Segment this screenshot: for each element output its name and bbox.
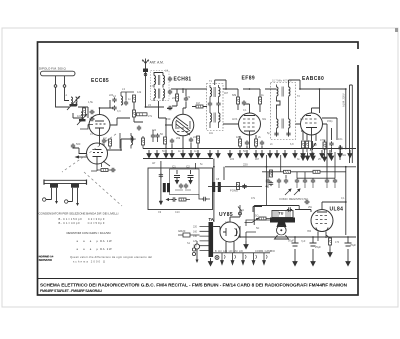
svg-text:220: 220	[193, 135, 198, 139]
UY85 anode feed	[213, 209, 240, 232]
EF89 cathode parts	[239, 139, 265, 146]
cap in TU feed	[287, 207, 292, 211]
svg-text:5Ω: 5Ω	[255, 214, 258, 218]
grid caps left of ECH81	[151, 130, 160, 142]
switch arrow right of UY85	[245, 218, 259, 223]
dial lamp	[215, 256, 219, 260]
electrolytic C50c	[345, 237, 357, 258]
coupling cap right	[329, 141, 333, 146]
L4 coil vertical	[131, 133, 136, 149]
svg-text:AP: AP	[152, 162, 156, 165]
tone network resistor RA	[284, 170, 291, 173]
svg-text:6,8: 6,8	[290, 143, 294, 146]
rectifier tube UY85	[220, 222, 240, 242]
svg-text:0,5M: 0,5M	[302, 198, 308, 201]
svg-text:C10: C10	[175, 211, 180, 214]
output pentode UL84	[311, 210, 333, 236]
svg-text:FM/64RF STARLET - FM/64RF SANG: FM/64RF STARLET - FM/64RF SANGRAU	[40, 289, 102, 293]
wires T1 to EF89	[215, 80, 238, 124]
bypass caps under ECH81	[189, 136, 200, 143]
tone caps to gnd stubs	[268, 184, 335, 188]
screen resistor R5	[176, 94, 179, 101]
svg-text:1M: 1M	[300, 118, 303, 121]
svg-text:CONDENSATORI PER SELEZIONE BAN: CONDENSATORI PER SELEZIONE BANDA DIF. DE…	[39, 212, 119, 216]
svg-text:25n: 25n	[308, 206, 313, 209]
svg-text:B-C1=150pF C2=30pF: B-C1=150pF C2=30pF	[59, 217, 105, 221]
svg-text:220: 220	[243, 163, 248, 167]
svg-text:a a a µ DA 1W: a a a µ DA 1W	[77, 239, 112, 243]
horizontal bus AVC line	[143, 148, 356, 150]
vertical feed wire x120	[110, 133, 120, 150]
svg-text:EF89: EF89	[242, 76, 256, 82]
phono switch box corner	[253, 207, 262, 213]
svg-text:UL84: UL84	[330, 207, 344, 213]
svg-text:B 110 125 140 160 220: B 110 125 140 160 220	[215, 250, 244, 253]
ferrite rod antenna	[44, 180, 87, 185]
tuning gang box	[148, 168, 213, 210]
IF transformer T2 dashed box	[271, 83, 296, 140]
volume pot vertical	[267, 155, 281, 205]
TA primary taps	[200, 227, 209, 251]
svg-text:220: 220	[109, 94, 114, 97]
value smudges front-end	[64, 87, 142, 146]
coupling caps C4 C5	[112, 97, 116, 102]
rotor bar C	[212, 182, 215, 192]
rectifier GR20	[178, 229, 200, 237]
svg-text:220: 220	[193, 226, 198, 229]
inner box caps	[175, 183, 191, 190]
neutralizing cluster under ECC85a	[102, 138, 112, 149]
EF89 screen components	[237, 97, 262, 106]
tone network resistor RB	[313, 170, 320, 173]
svg-text:ECH81: ECH81	[174, 77, 192, 83]
svg-text:25μF: 25μF	[350, 243, 356, 247]
svg-text:220: 220	[230, 158, 235, 161]
svg-text:47k: 47k	[186, 95, 191, 99]
ferrite coil A	[43, 184, 59, 205]
svg-text:SCHEMA ELETTRICO DEI RADIORICE: SCHEMA ELETTRICO DEI RADIORICEVITORI G.B…	[40, 283, 348, 288]
svg-text:3,3: 3,3	[117, 110, 121, 113]
svg-text:TU: TU	[279, 212, 284, 216]
svg-text:SERVIZIO: SERVIZIO	[39, 258, 53, 262]
electrolytic C50b	[310, 237, 322, 258]
variable cap C2	[186, 165, 194, 184]
tone caps row	[266, 178, 337, 183]
gang left feed column	[159, 161, 163, 205]
pentagrid ECH81	[172, 114, 194, 136]
fuse terminal above UY85	[238, 205, 242, 215]
ground arrows row under IF strip	[147, 150, 352, 158]
triode ECC85b	[87, 143, 108, 164]
svg-text:AOS: AOS	[232, 118, 238, 121]
input tuning coil L1 with trimmer arrow	[67, 96, 80, 110]
T1 tuning caps	[208, 97, 221, 107]
svg-text:220k: 220k	[306, 140, 312, 143]
svg-text:50μF: 50μF	[288, 239, 294, 243]
svg-text:68k: 68k	[232, 93, 237, 97]
osc grid resistor R7	[164, 137, 175, 144]
impedance tap resistor	[255, 214, 270, 221]
interstage coil L3	[121, 92, 134, 106]
horizontal bus heater line	[143, 158, 213, 160]
grid resistor UL84	[323, 142, 326, 149]
plate load resistor R4	[137, 113, 148, 116]
AM antenna symbol	[142, 59, 149, 100]
svg-text:10n: 10n	[209, 132, 214, 135]
svg-text:ECC85: ECC85	[91, 78, 109, 84]
electrolytic C50a	[288, 237, 299, 258]
pickup PU circle	[194, 241, 199, 263]
value smudges ECH81	[148, 69, 200, 141]
svg-text:ANT. A.M.: ANT. A.M.	[150, 61, 164, 65]
UL84 cathode resistor	[318, 235, 332, 249]
rotor bar D	[218, 182, 221, 192]
small value labels right	[313, 137, 343, 147]
gang bottom parts	[166, 197, 191, 201]
fono series cap	[217, 184, 222, 188]
svg-text:467: 467	[255, 158, 260, 161]
tone wires	[262, 172, 346, 178]
rotor bar A	[163, 183, 166, 192]
fono coupling line	[208, 185, 262, 187]
vertical feeder left of gang	[214, 159, 224, 223]
title separator line	[38, 278, 359, 280]
svg-text:100: 100	[152, 129, 157, 132]
svg-text:1M: 1M	[313, 143, 317, 147]
svg-text:180: 180	[236, 135, 241, 139]
volume pot 500k	[269, 170, 274, 186]
svg-text:0,1: 0,1	[341, 197, 345, 200]
resistor R3	[133, 110, 136, 117]
inner detector box	[170, 169, 200, 195]
resistor R2	[133, 95, 136, 102]
EABC80 lower wiring	[301, 118, 337, 172]
switch arrows tone	[285, 189, 300, 195]
resistor column right of ECC85	[142, 136, 145, 149]
schematic border frame	[38, 42, 361, 295]
rotor bar B	[167, 183, 170, 192]
UY85 pins down	[226, 241, 234, 253]
svg-text:170: 170	[335, 241, 340, 244]
svg-text:12k: 12k	[137, 90, 142, 94]
wire lower triode left	[73, 148, 87, 154]
T2 primary coil pair	[277, 85, 291, 97]
UL84 grid feed	[322, 145, 346, 235]
small caps C2 C3 at grid	[89, 110, 94, 114]
speaker return wire	[246, 220, 270, 241]
svg-text:C1: C1	[172, 165, 176, 169]
svg-text:100: 100	[77, 114, 82, 118]
B+ rail bottom	[240, 226, 356, 237]
triode-triple-diode EABC80	[301, 113, 323, 135]
tap terminal arrows	[221, 253, 268, 265]
svg-text:20k: 20k	[176, 136, 181, 140]
coupling cap to UL84	[304, 200, 309, 204]
svg-text:2A: 2A	[241, 209, 244, 212]
svg-text:160: 160	[193, 230, 198, 233]
svg-text:GZ: GZ	[225, 221, 229, 224]
svg-text:a a a µ DA 2W: a a a µ DA 2W	[77, 247, 112, 251]
svg-text:150p: 150p	[327, 120, 333, 123]
output transformer TU windings	[272, 211, 293, 218]
svg-text:COMM. CAMBIO: COMM. CAMBIO	[255, 249, 275, 253]
variable cap C1	[172, 165, 180, 184]
cathode choke cluster	[77, 112, 87, 125]
svg-text:TA: TA	[209, 217, 214, 222]
svg-text:0,1: 0,1	[243, 109, 247, 112]
tone second rail	[297, 177, 335, 179]
svg-text:FONO: FONO	[230, 189, 239, 193]
value smudges EF89	[232, 93, 264, 153]
fono resistor	[237, 183, 247, 190]
wires below lower triode	[91, 161, 110, 171]
FM dipole antenna	[41, 71, 76, 87]
svg-text:GR20: GR20	[178, 229, 186, 233]
svg-text:350: 350	[307, 230, 312, 233]
TA tap labels	[193, 226, 198, 253]
oscillator transformer L7/L8	[154, 89, 165, 102]
cap far right	[338, 145, 342, 150]
svg-text:500k: 500k	[270, 170, 274, 176]
svg-text:EABC80: EABC80	[302, 76, 324, 82]
padder caps beside osc coils	[168, 76, 172, 81]
svg-text:467: 467	[224, 92, 229, 95]
wire dipole to input coil	[56, 87, 70, 107]
wire coil to grid cluster	[73, 107, 88, 118]
speaker magnet	[277, 223, 287, 228]
IF transformer T1 dashed box	[207, 84, 224, 131]
extra grounds under EABC80	[301, 153, 334, 162]
cathode arrow left ECC85	[75, 155, 88, 158]
T1 primary coil	[210, 85, 220, 97]
detector parts right	[196, 163, 211, 201]
AVC resistor	[306, 141, 309, 148]
detector load resistor	[302, 141, 305, 148]
svg-text:5Ω: 5Ω	[256, 227, 259, 230]
title text	[40, 283, 348, 294]
scattered value smudges	[109, 80, 347, 245]
svg-text:1,5k: 1,5k	[88, 100, 94, 104]
wire plate ECC85a to coupling	[100, 100, 114, 146]
power transformer TA core	[209, 222, 214, 257]
svg-text:schema 2000 Ω: schema 2000 Ω	[73, 260, 105, 264]
T2 coupling link	[277, 97, 281, 110]
svg-text:10n: 10n	[338, 137, 343, 141]
T1 secondary coil	[210, 107, 220, 129]
svg-text:25μF: 25μF	[315, 245, 321, 249]
ferrite coil B	[65, 184, 80, 207]
triode ECC85a	[89, 115, 110, 136]
pentode EF89	[239, 113, 261, 135]
svg-text:470k: 470k	[320, 138, 326, 142]
svg-text:560: 560	[76, 142, 81, 146]
AM input coil block	[143, 69, 148, 76]
oscillator transformer L5/L6	[154, 73, 165, 88]
cap C6	[129, 137, 134, 141]
svg-text:22k: 22k	[172, 96, 177, 100]
diagonal dashed gang line right	[84, 172, 122, 206]
arrow into tube grid	[80, 125, 93, 130]
TA secondary bottom line	[213, 252, 270, 254]
wire top bus to EABC80 and right column	[300, 89, 346, 149]
svg-text:1M: 1M	[196, 101, 200, 105]
grid cap C12	[167, 106, 172, 110]
svg-text:50n: 50n	[342, 154, 347, 157]
svg-text:7μF: 7μF	[301, 240, 306, 243]
AGC resistor R6	[196, 105, 203, 108]
ground under TA	[208, 258, 212, 266]
svg-text:C2: C2	[186, 165, 190, 169]
svg-text:FONO REGISTR.: FONO REGISTR.	[280, 197, 303, 201]
speaker horn	[275, 235, 289, 239]
svg-text:140: 140	[193, 235, 198, 238]
speaker basket circle	[277, 226, 287, 236]
cap C8	[71, 143, 75, 148]
svg-text:110: 110	[193, 245, 197, 248]
norme note	[39, 255, 153, 264]
right edge vertical pair	[350, 85, 353, 163]
plate decoupling cap	[184, 96, 188, 101]
grounds bottom right	[244, 241, 350, 266]
wires EF89	[238, 89, 262, 149]
grid resistor R1	[83, 108, 86, 115]
horizontal bus B+ line	[225, 166, 356, 168]
parts below ECC85b	[97, 163, 116, 172]
svg-text:150: 150	[166, 117, 171, 121]
svg-text:2,2: 2,2	[103, 136, 107, 140]
svg-text:ALIM. 220V: ALIM. 220V	[342, 93, 346, 107]
wire TU to UL84 plate	[254, 206, 311, 226]
TU core bar	[270, 218, 295, 223]
oscillator coils dashed enclosure	[151, 71, 170, 101]
wires resistors to gnd bus	[303, 140, 341, 172]
T2 bottom caps	[274, 131, 290, 136]
cap C7	[137, 125, 141, 130]
svg-text:125: 125	[193, 240, 198, 243]
svg-text:RESISTORI CON OHMS = DA 1/SM: RESISTORI CON OHMS = DA 1/SM	[67, 231, 112, 235]
T2 secondary coil pair	[277, 97, 291, 136]
svg-text:B-C1=40pF C2=50pF: B-C1=40pF C2=50pF	[59, 221, 105, 225]
wires T2 to EABC80	[265, 80, 301, 124]
wires ECH81 hookup	[146, 89, 208, 149]
wires ECC85 stage to mixer	[107, 102, 143, 150]
diagonal dashed gang line left	[62, 134, 116, 172]
svg-text:DIPOLO F.M. 300 Ω: DIPOLO F.M. 300 Ω	[39, 67, 67, 71]
mains terminals	[192, 248, 195, 256]
volume potentiometer 0,5M	[310, 141, 316, 151]
svg-text:Questi valori che differiscono: Questi valori che differiscono da ogni s…	[70, 255, 152, 259]
